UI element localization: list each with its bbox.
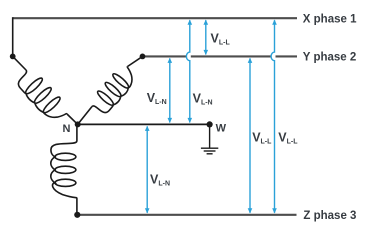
svg-text:Y phase 2: Y phase 2 bbox=[303, 52, 357, 64]
svg-text:VL-N: VL-N bbox=[147, 91, 167, 106]
node: Y-line junction dot bbox=[140, 54, 146, 60]
svg-text:X phase 1: X phase 1 bbox=[303, 13, 357, 25]
winding: phase Z coil (vertical) bbox=[51, 141, 77, 199]
wire: bottom coil to Z-line node bbox=[76, 199, 78, 215]
node N junction dot bbox=[75, 121, 81, 127]
svg-text:VL-L: VL-L bbox=[252, 130, 272, 145]
node: X-drop junction dot bbox=[10, 54, 16, 60]
arrow: V L-L between Y and Z lines bbox=[249, 58, 251, 212]
ground symbol at W bbox=[201, 124, 218, 153]
wire: stub from X-drop node to coil bbox=[13, 56, 26, 70]
wire: X phase 1 line bbox=[13, 17, 297, 19]
arrow: V L-N between X line and neutral, hop over Y bbox=[186, 20, 189, 122]
node: Z-line junction dot bbox=[74, 212, 80, 218]
wire: Z phase 3 line bbox=[77, 214, 296, 216]
svg-text:VL-N: VL-N bbox=[193, 92, 213, 107]
arrow: V L-N between neutral and Z line bbox=[146, 126, 148, 212]
wire: node N down to bottom coil bbox=[76, 124, 78, 141]
arrowheads: V L-N X-neutral bbox=[188, 20, 193, 25]
node W junction dot bbox=[207, 121, 213, 127]
arrowheads: V L-L X-Y bbox=[204, 20, 209, 25]
svg-text:N: N bbox=[63, 123, 71, 135]
wire: neutral N to W bbox=[78, 123, 210, 125]
arrowheads: V L-L Y-Z bbox=[248, 58, 253, 63]
wire: node N to right coil bbox=[78, 107, 92, 125]
svg-text:VL-N: VL-N bbox=[150, 173, 170, 188]
winding: phase Y coil (upper-right diagonal) bbox=[88, 63, 140, 118]
wire: left vertical drop from X line bbox=[12, 17, 14, 56]
arrowheads: V L-N neutral-Z bbox=[145, 126, 150, 131]
wire: coil end to Y-line node bbox=[128, 56, 143, 66]
arrow: V L-L between X and Y lines bbox=[205, 20, 207, 54]
arrow: V L-N between Y line and neutral bbox=[169, 58, 171, 122]
arrowheads: V L-N Y-neutral bbox=[168, 58, 173, 63]
arrow: V L-L between X and Z lines, hop over Y bbox=[271, 20, 274, 213]
svg-text:Z phase 3: Z phase 3 bbox=[303, 210, 356, 222]
svg-text:VL-L: VL-L bbox=[278, 131, 298, 146]
wire: Y phase 2 line (gaps at arrow hops) bbox=[143, 55, 298, 57]
wire: coil end to node N bbox=[67, 114, 78, 124]
winding: phase X coil (upper-left diagonal) bbox=[13, 66, 71, 126]
svg-text:VL-L: VL-L bbox=[211, 32, 231, 47]
arrowheads: V L-L X-Z bbox=[272, 20, 277, 25]
svg-text:W: W bbox=[216, 123, 227, 135]
